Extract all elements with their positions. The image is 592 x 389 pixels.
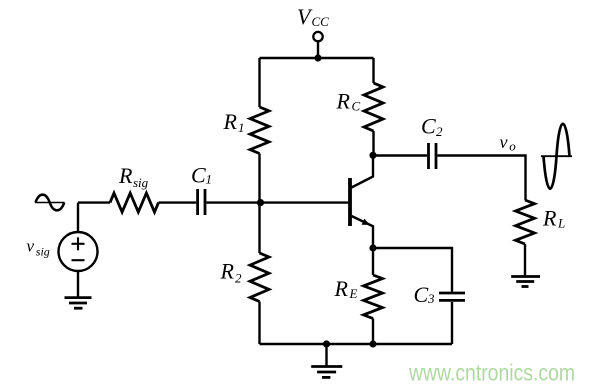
svg-text:C: C [191,163,206,188]
svg-text:R: R [336,89,351,114]
svg-text:1: 1 [238,120,245,135]
svg-text:L: L [557,216,565,231]
svg-text:R: R [542,206,557,231]
svg-text:www.cntronics.com: www.cntronics.com [408,360,575,386]
svg-text:sig: sig [36,245,50,259]
svg-text:o: o [509,139,516,154]
svg-text:v: v [27,237,35,256]
svg-text:R: R [118,163,133,188]
svg-text:1: 1 [206,172,213,187]
svg-text:R: R [223,109,238,134]
svg-text:CC: CC [312,14,330,29]
svg-text:E: E [349,286,358,301]
svg-text:3: 3 [427,291,435,306]
svg-text:C: C [421,114,436,139]
svg-text:sig: sig [133,175,149,190]
svg-text:R: R [220,259,235,284]
svg-text:v: v [500,132,508,152]
svg-text:2: 2 [235,271,242,286]
svg-text:2: 2 [436,124,443,139]
svg-text:C: C [414,282,429,307]
svg-text:R: R [334,276,349,301]
svg-text:C: C [352,99,361,114]
